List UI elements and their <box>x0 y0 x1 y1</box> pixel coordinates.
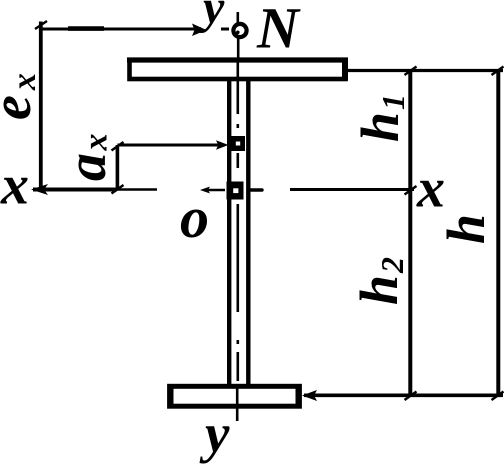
svg-text:o: o <box>180 185 209 250</box>
top dimension line to N level <box>41 28 199 31</box>
svg-text:ex: ex <box>0 73 43 120</box>
tick where x-axis meets h1 line <box>405 186 417 195</box>
label a_x <box>56 134 118 182</box>
tick at a_x corner <box>112 142 124 151</box>
tick at top of e_x line <box>35 21 47 29</box>
svg-text:N: N <box>256 0 301 61</box>
arrowhead at left end of x-axis <box>31 184 48 195</box>
h1/h2 dimension line <box>408 71 412 396</box>
arrowhead at bottom flange <box>302 390 317 401</box>
arrowhead into web for a_x <box>216 140 229 149</box>
tick at a_x base on x-axis <box>112 185 124 194</box>
tick at h1 line top <box>405 67 417 76</box>
a_x horizontal dimension line <box>117 144 222 147</box>
label h <box>436 214 496 244</box>
svg-text:x: x <box>416 158 445 220</box>
small left arrow on x-axis dash near node O <box>200 187 210 194</box>
label h2 <box>349 257 410 305</box>
label e_x <box>0 73 43 120</box>
y-axis centerline (dash-dot) <box>237 12 238 421</box>
svg-text:x: x <box>0 155 29 217</box>
web right edge <box>246 81 250 385</box>
bottom flange <box>170 386 300 406</box>
node marker at centroid O on x-axis <box>227 182 244 200</box>
x-axis chain line <box>33 188 414 193</box>
tick at h1 line bottom <box>405 392 417 401</box>
svg-text:h: h <box>436 214 496 244</box>
a_x vertical dimension line <box>116 145 120 189</box>
extension line from top flange to h lines <box>348 69 503 72</box>
web left edge <box>227 81 231 385</box>
point N circle <box>233 24 246 37</box>
bottom dimension line <box>304 393 503 397</box>
e_x vertical dimension line <box>39 22 43 191</box>
h dimension line <box>496 71 500 396</box>
dash between y label and N circle <box>221 28 229 31</box>
tick at h line bottom <box>492 392 504 401</box>
label h1 <box>350 94 411 142</box>
svg-text:y: y <box>198 0 225 34</box>
top flange <box>127 58 348 81</box>
tick at h line top <box>492 67 504 76</box>
arrowhead at y label <box>192 24 207 37</box>
node marker at a_x point on web <box>231 136 245 151</box>
